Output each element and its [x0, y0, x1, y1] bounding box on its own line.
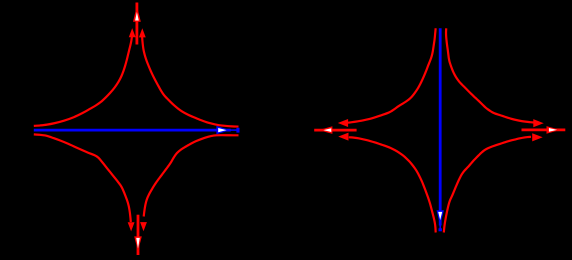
left figure: blue horizontal axis	[34, 129, 231, 132]
left figure: upper-right trajectory	[142, 37, 238, 127]
right figure: upper-left trajectory	[348, 28, 436, 122]
right figure: lower-left trajectory	[349, 137, 436, 232]
left figure: bottom open arrowhead (down)	[134, 236, 142, 251]
right figure: blue open arrowhead (down)	[437, 210, 444, 225]
right figure: small arrow left (lower-left branch)	[340, 133, 348, 140]
right figure: upper-right trajectory	[446, 28, 533, 122]
right figure: small arrow left (upper-left branch)	[339, 120, 347, 127]
left figure: small arrow up (top-left branch)	[130, 30, 135, 37]
right figure: lower-right trajectory	[444, 137, 531, 233]
left figure: upper-left trajectory	[34, 37, 132, 126]
left figure: top open arrowhead (up)	[133, 6, 141, 22]
left figure: small arrow down (bottom-left branch)	[128, 223, 133, 230]
right figure: left red axis stub	[314, 129, 356, 132]
left figure: blue axis neck past arrowhead	[230, 129, 237, 131]
right figure: small arrow right (upper-right branch)	[534, 120, 543, 127]
right figure: small arrow right (lower-right branch)	[533, 134, 542, 141]
right figure: left open arrowhead (left)	[319, 126, 333, 134]
left figure: blue axis end tick	[236, 128, 239, 133]
left figure: lower-left trajectory	[34, 134, 131, 222]
left figure: small arrow up (top-right branch)	[140, 30, 145, 37]
left figure: small arrow down (bottom-right branch)	[141, 223, 146, 230]
left figure: blue open arrowhead (right)	[216, 126, 230, 134]
right figure: right open arrowhead (right)	[547, 126, 561, 134]
right figure: blue axis neck past arrowhead	[439, 225, 441, 229]
left figure: lower-right trajectory	[144, 135, 239, 216]
right figure: blue axis end tick	[439, 228, 442, 231]
right figure: blue vertical axis	[439, 28, 442, 225]
left figure: bottom red axis stub	[137, 215, 140, 255]
left figure: top red axis stub	[135, 3, 138, 45]
right figure: right red axis stub	[522, 128, 566, 131]
